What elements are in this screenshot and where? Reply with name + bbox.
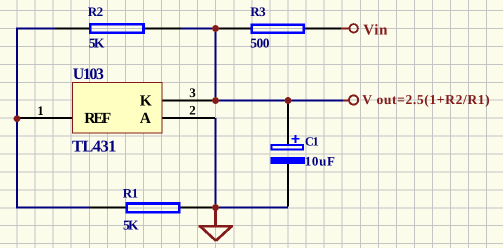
junction ground [212,204,219,211]
svg-text:U103: U103 [73,66,104,83]
svg-text:V out=2.5(1+R2/R1): V out=2.5(1+R2/R1) [362,92,490,107]
wire bottom rail right segment [180,207,288,209]
junction Vout [285,97,292,104]
wire top rail R2-to-junction segment [180,28,216,30]
svg-text:5K: 5K [89,36,105,51]
capacitor C1 bottom plate [271,157,305,164]
svg-text:3: 3 [189,85,196,100]
IC U103 TL431 body [73,83,163,134]
resistor R1 pins [90,207,215,209]
pin 3 K [162,100,215,102]
svg-text:R3: R3 [250,4,266,19]
pin 2 A [162,117,215,119]
junction top [212,25,219,32]
wire mid vertical upper [215,29,217,101]
svg-text:C1: C1 [305,135,319,149]
svg-text:K: K [140,93,152,110]
resistor R1 [127,204,180,213]
op-amp U1 pin 1 wire REF [18,117,72,119]
svg-text:500: 500 [250,35,269,50]
svg-text:R2: R2 [88,4,103,19]
svg-text:10uF: 10uF [305,153,336,168]
terminal Vout lead [343,99,349,101]
svg-text:2: 2 [189,102,196,117]
svg-text:A: A [140,110,152,127]
junction K [212,97,219,104]
capacitor C1 plus sign [291,135,299,143]
resistor R3 pins [217,28,341,30]
svg-text:1: 1 [37,103,44,118]
junction REF left [14,115,21,122]
terminal Vout circle [349,95,358,104]
svg-text:5K: 5K [123,218,139,233]
svg-text:Vin: Vin [363,23,388,39]
resistor R2 [90,24,143,32]
capacitor C1 bottom pin [287,164,289,207]
terminal Vin lead [341,27,350,29]
svg-text:TL431: TL431 [72,137,116,156]
resistor R2 pins [55,28,181,30]
wire top rail left segment [17,28,56,30]
wire A net vertical down [215,118,217,208]
capacitor C1 top pin [287,101,289,144]
resistor R3 [252,25,304,33]
wire bottom rail left segment [17,207,91,209]
wire K net horizontal [216,100,344,102]
ground [199,208,233,241]
svg-text:R1: R1 [123,185,138,200]
capacitor C1 top plate [272,145,304,150]
svg-text:REF: REF [84,110,111,127]
terminal Vin circle [350,24,358,32]
wire left rail vertical [16,28,18,209]
